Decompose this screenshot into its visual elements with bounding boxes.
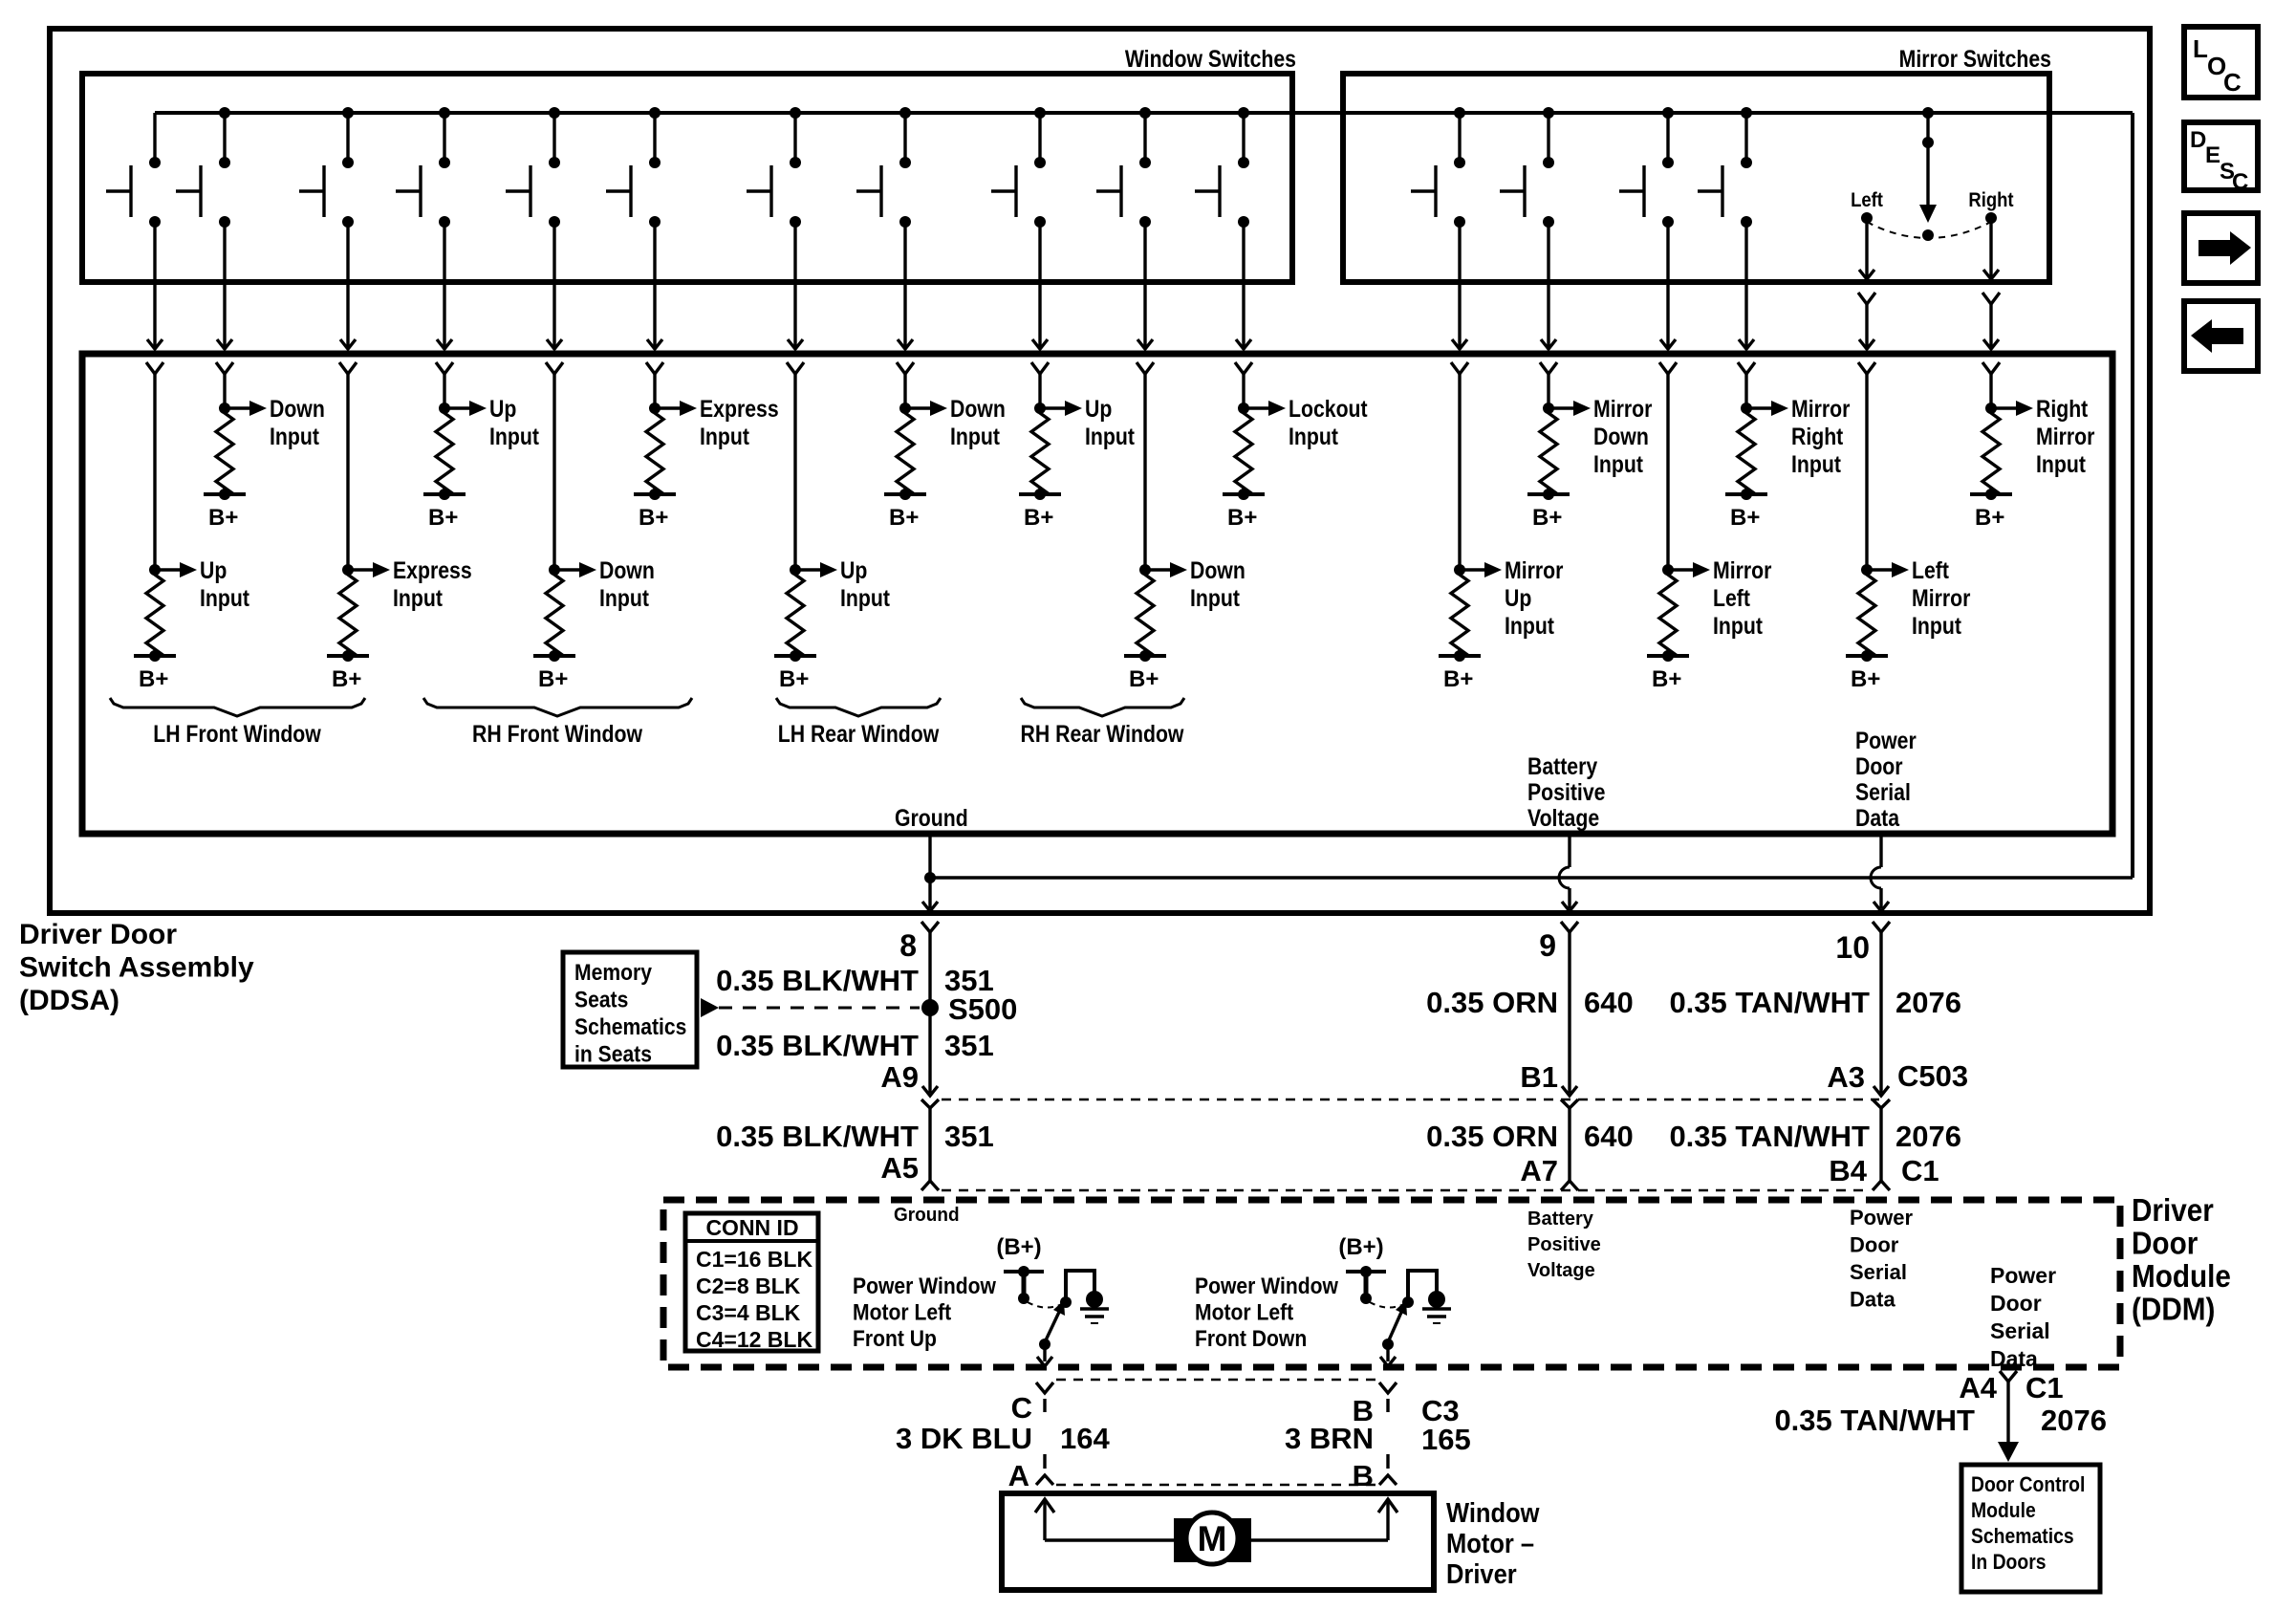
node: junction at (162,596) <box>149 564 161 576</box>
switch SW10 (RH rear down) <box>1096 107 1151 228</box>
svg-text:Up: Up <box>200 556 227 583</box>
svg-text:0.35 ORN: 0.35 ORN <box>1426 1120 1558 1153</box>
svg-text:Up: Up <box>840 556 867 583</box>
svg-text:Lockout: Lockout <box>1289 395 1368 422</box>
svg-text:B+: B+ <box>779 666 809 692</box>
svg-text:B+: B+ <box>1443 666 1473 692</box>
wire: motor box right lead <box>1250 1499 1397 1540</box>
svg-text:B+: B+ <box>639 505 668 531</box>
svg-text:Voltage: Voltage <box>1527 804 1599 831</box>
svg-text:C503: C503 <box>1897 1059 1968 1093</box>
svg-text:Input: Input <box>950 423 1000 449</box>
relay contact: B+ feed bar <box>1346 1266 1386 1304</box>
group brace: LH Rear Window <box>776 698 941 747</box>
wire label: 3 DK BLU circuit 164 <box>896 1422 1110 1455</box>
svg-text:9: 9 <box>1539 928 1556 963</box>
svg-text:Door: Door <box>1850 1233 1899 1257</box>
svg-text:B+: B+ <box>1975 505 2004 531</box>
resistor R6 <box>1235 408 1252 494</box>
wire: switch SW9 output into resistor box <box>1031 222 1049 374</box>
svg-text:Window: Window <box>1446 1496 1540 1528</box>
svg-text:Down: Down <box>1190 556 1245 583</box>
B+ terminal below R7 <box>1527 489 1570 531</box>
signal arrow: Mirror Left Input <box>1668 556 1771 639</box>
switch SW3 (LH front express) <box>299 107 354 228</box>
svg-text:Door: Door <box>2132 1226 2198 1261</box>
svg-text:CONN ID: CONN ID <box>705 1215 798 1240</box>
relay contact: B+ feed bar <box>1004 1266 1044 1304</box>
svg-text:Input: Input <box>1912 612 1961 639</box>
B+ terminal below R13 <box>774 650 816 692</box>
wire label: 0.35 ORN circuit 640 (below C503) <box>1426 1120 1634 1153</box>
wire: ground from resistor box to pin 8 <box>928 834 931 908</box>
svg-text:Serial: Serial <box>1850 1260 1907 1284</box>
Mirror Switches box <box>1343 74 2049 282</box>
CONN ID table <box>685 1213 818 1352</box>
pin 8 exit (ground) <box>921 902 939 932</box>
svg-text:B+: B+ <box>538 666 568 692</box>
wire: column x=1953 to lower junction <box>1865 374 1868 570</box>
ground <box>1422 1309 1451 1323</box>
resistor R16 <box>1659 570 1677 656</box>
svg-text:Mirror: Mirror <box>1713 556 1771 583</box>
signal arrow: Down Input <box>905 395 1006 449</box>
svg-text:Door Control: Door Control <box>1971 1473 2085 1496</box>
svg-text:3 DK BLU: 3 DK BLU <box>896 1422 1032 1455</box>
svg-text:Memory: Memory <box>574 960 652 986</box>
Door Control Module Schematics In Doors reference box <box>1961 1465 2100 1592</box>
Memory Seats Schematics in Seats reference box <box>563 952 697 1067</box>
svg-text:Front Up: Front Up <box>853 1326 937 1352</box>
svg-text:Input: Input <box>700 423 749 449</box>
resistor R5 <box>1031 408 1049 494</box>
wire: selector dashed travel arc <box>1867 222 1991 238</box>
svg-text:A3: A3 <box>1827 1060 1865 1094</box>
wire: switch SW10 output into resistor box <box>1137 222 1154 374</box>
svg-text:Power Window: Power Window <box>853 1274 996 1299</box>
resistor R2 <box>436 408 453 494</box>
wire: Left mirror select output <box>1858 218 1875 374</box>
svg-text:0.35 TAN/WHT: 0.35 TAN/WHT <box>1669 986 1870 1019</box>
wire: column x=832 to lower junction <box>793 374 796 570</box>
relay contacts bracket with ground contact <box>1402 1271 1445 1308</box>
svg-text:Up: Up <box>1085 395 1112 422</box>
wire: column x=2083 to upper junction <box>1989 374 1992 408</box>
svg-text:B+: B+ <box>1652 666 1681 692</box>
wire: ground collector to pin 8 <box>930 876 2133 879</box>
signal arrow: Left Mirror Input <box>1867 556 1970 639</box>
resistor R15 <box>1451 570 1468 656</box>
signal arrow: Down Input <box>1145 556 1245 611</box>
wire: motor box left lead <box>1035 1499 1174 1540</box>
svg-text:Motor Left: Motor Left <box>1195 1299 1294 1325</box>
svg-text:Data: Data <box>1850 1288 1895 1312</box>
switch SW14 (mirror left) <box>1619 107 1674 228</box>
wire label: 0.35 TAN/WHT circuit 2076 (above C503) <box>1669 986 1961 1019</box>
resistor R9 <box>1982 408 2000 494</box>
svg-text:B+: B+ <box>1129 666 1159 692</box>
resistor R11 <box>339 570 357 656</box>
svg-text:2076: 2076 <box>2041 1404 2107 1437</box>
resistor R14 <box>1137 570 1154 656</box>
wire: column x=1745 to lower junction <box>1666 374 1669 570</box>
svg-text:Mirror: Mirror <box>2036 423 2094 449</box>
svg-text:LH Rear Window: LH Rear Window <box>778 720 940 747</box>
resistor R7 <box>1540 408 1557 494</box>
svg-text:3 BRN: 3 BRN <box>1285 1422 1374 1455</box>
B+ terminal below R5 <box>1019 489 1061 531</box>
motor M1 (window motor) <box>1174 1513 1251 1564</box>
wire: S500 to connector C503 terminal A9 <box>922 1008 938 1096</box>
svg-text:In Doors: In Doors <box>1971 1551 2047 1574</box>
resistor R8 <box>1738 408 1755 494</box>
relay contacts bracket with ground contact <box>1060 1271 1103 1308</box>
svg-text:B+: B+ <box>1730 505 1760 531</box>
wire label: 0.35 TAN/WHT circuit 2076 (below C503) <box>1669 1120 1961 1153</box>
splice S500 <box>921 992 1017 1026</box>
svg-text:C: C <box>2232 169 2248 195</box>
svg-text:Power: Power <box>1990 1263 2056 1288</box>
signal arrow: Up Input <box>795 556 890 611</box>
relay armature arrow <box>1382 1300 1407 1350</box>
svg-text:8: 8 <box>899 928 917 963</box>
svg-text:Input: Input <box>1190 584 1240 611</box>
wire: C503 A9/A5 pass-through (ground) <box>921 1099 939 1190</box>
svg-text:Window Switches: Window Switches <box>1125 45 1296 72</box>
wire: pin 8 to S500 <box>928 932 931 1008</box>
legend box DESC <box>2184 122 2258 195</box>
svg-text:Module: Module <box>2132 1259 2231 1295</box>
signal arrow: Up Input <box>1040 395 1135 449</box>
connector C503 dashed body (bottom) <box>942 1189 1870 1192</box>
svg-text:Battery: Battery <box>1527 752 1597 779</box>
switch SW2 (LH front down) <box>176 107 230 228</box>
wire: column x=465 to upper junction <box>443 374 445 408</box>
svg-text:B+: B+ <box>889 505 919 531</box>
svg-text:Down: Down <box>599 556 655 583</box>
svg-text:L: L <box>2193 34 2208 63</box>
Window Motor - Driver box <box>1002 1493 1434 1590</box>
Driver Door Switch Assembly (DDSA) outer box <box>50 29 2150 913</box>
B+ terminal below R8 <box>1725 489 1767 531</box>
node: junction at (1827,427) <box>1741 403 1752 414</box>
node: junction at (1527,596) <box>1454 564 1465 576</box>
svg-text:LH Front Window: LH Front Window <box>153 720 321 747</box>
connector C503 dashed body (top) <box>942 1099 1879 1101</box>
svg-text:C2=8 BLK: C2=8 BLK <box>696 1274 801 1298</box>
wire: column x=1620 to upper junction <box>1547 374 1549 408</box>
svg-text:Positive: Positive <box>1527 778 1606 805</box>
switch SW1 (LH front up) <box>106 113 161 228</box>
motor connector dashed body (top) <box>1056 1379 1376 1382</box>
node: Left contact <box>1861 212 1873 224</box>
svg-text:Door: Door <box>1990 1291 2042 1316</box>
wire label: 0.35 BLK/WHT circuit 351 (below S500) <box>716 1029 994 1062</box>
svg-text:B+: B+ <box>1851 666 1880 692</box>
node: junction at (832,596) <box>790 564 801 576</box>
node: junction at (685,427) <box>649 403 661 414</box>
signal arrow: Express Input <box>655 395 779 449</box>
svg-text:B1: B1 <box>1520 1060 1558 1094</box>
wire: motor feed B/B (down) through connector <box>1379 1382 1397 1485</box>
wire: column x=1198 to lower junction <box>1143 374 1146 570</box>
svg-text:Ground: Ground <box>895 804 968 831</box>
wire: DDM pin A4 serial data out <box>1998 1371 2019 1462</box>
svg-text:Data: Data <box>1990 1346 2038 1371</box>
svg-text:0.35 ORN: 0.35 ORN <box>1426 986 1558 1019</box>
svg-text:640: 640 <box>1584 986 1634 1019</box>
svg-text:351: 351 <box>944 1029 994 1062</box>
wire: column x=1301 to upper junction <box>1242 374 1245 408</box>
svg-text:B+: B+ <box>1227 505 1257 531</box>
group brace: RH Front Window <box>423 698 692 747</box>
B+ terminal below R10 <box>134 650 176 692</box>
signal arrow: Up Input <box>155 556 249 611</box>
wire: switch SW13 output into resistor box <box>1540 222 1557 374</box>
svg-text:Serial: Serial <box>1855 778 1911 805</box>
svg-text:B+: B+ <box>332 666 361 692</box>
wire: switch SW11 output into resistor box <box>1235 222 1252 374</box>
B+ terminal below R9 <box>1970 489 2012 531</box>
resistor R10 <box>146 570 163 656</box>
svg-text:(DDM): (DDM) <box>2132 1292 2215 1327</box>
wire: motor feed C/A (up) through connector <box>1036 1382 1053 1485</box>
svg-text:D: D <box>2190 127 2206 153</box>
signal arrow: Down Input <box>225 395 325 449</box>
svg-text:0.35 BLK/WHT: 0.35 BLK/WHT <box>716 964 919 997</box>
svg-text:0.35 BLK/WHT: 0.35 BLK/WHT <box>716 1029 919 1062</box>
svg-text:164: 164 <box>1060 1422 1110 1455</box>
B+ terminal below R6 <box>1223 489 1265 531</box>
svg-text:Driver: Driver <box>2132 1193 2214 1229</box>
svg-text:(B+): (B+) <box>996 1234 1041 1260</box>
B+ terminal below R2 <box>423 489 466 531</box>
svg-text:(DDSA): (DDSA) <box>19 985 119 1016</box>
resistor R1 <box>216 408 233 494</box>
svg-text:Left: Left <box>1912 556 1949 583</box>
wire: common ground bus across switch boxes <box>155 111 2133 115</box>
svg-text:Up: Up <box>1505 584 1531 611</box>
switch SW4 (RH front up) <box>396 107 450 228</box>
svg-text:Input: Input <box>599 584 649 611</box>
node: Right contact <box>1985 212 1997 224</box>
switch input resistor box (DDSA internals) <box>82 354 2112 834</box>
svg-text:Data: Data <box>1855 804 1900 831</box>
wire label: 0.35 ORN circuit 640 (above C503) <box>1426 986 1634 1019</box>
svg-text:Power: Power <box>1855 727 1917 753</box>
node: junction at (465,427) <box>439 403 450 414</box>
wire: C503 B1/A7 pass-through (battery) <box>1561 1099 1578 1190</box>
switch SW6 (RH front express) <box>606 107 661 228</box>
svg-text:Down: Down <box>950 395 1006 422</box>
B+ terminal below R11 <box>327 650 369 692</box>
Window Switches box <box>82 74 1292 282</box>
svg-text:RH Rear Window: RH Rear Window <box>1021 720 1185 747</box>
svg-text:Mirror: Mirror <box>1593 395 1652 422</box>
svg-text:Right: Right <box>1791 423 1844 449</box>
B+ terminal below R17 <box>1846 650 1888 692</box>
svg-text:Schematics: Schematics <box>1971 1525 2074 1548</box>
switch SW7 (LH rear up) <box>747 107 801 228</box>
legend box back arrow <box>2184 301 2258 371</box>
svg-text:C1=16 BLK: C1=16 BLK <box>696 1247 812 1272</box>
svg-text:Right: Right <box>2036 395 2089 422</box>
wire: column x=1827 to upper junction <box>1744 374 1747 408</box>
svg-text:351: 351 <box>944 1120 994 1153</box>
svg-text:Up: Up <box>489 395 516 422</box>
svg-text:Down: Down <box>1593 423 1649 449</box>
svg-text:Driver Door: Driver Door <box>19 919 177 950</box>
svg-text:A9: A9 <box>880 1060 919 1094</box>
svg-text:Schematics: Schematics <box>574 1014 686 1040</box>
signal arrow: Mirror Down Input <box>1549 395 1652 477</box>
B+ terminal below R12 <box>533 650 575 692</box>
svg-text:Express: Express <box>393 556 472 583</box>
svg-text:(B+): (B+) <box>1338 1234 1383 1260</box>
switch SW12 (mirror up) <box>1411 107 1465 228</box>
resistor R17 <box>1858 570 1875 656</box>
switch SW8 (LH rear down) <box>856 107 911 228</box>
wire: switch SW1 output into resistor box <box>146 222 163 374</box>
signal arrow: Down Input <box>554 556 655 611</box>
wire: column x=1088 to upper junction <box>1038 374 1041 408</box>
wire: switch SW12 output into resistor box <box>1451 222 1468 374</box>
resistor R13 <box>787 570 804 656</box>
svg-text:Left: Left <box>1851 189 1883 211</box>
svg-text:Motor Left: Motor Left <box>853 1299 952 1325</box>
svg-text:Down: Down <box>270 395 325 422</box>
signal arrow: Up Input <box>444 395 539 449</box>
svg-text:Door: Door <box>1855 752 1903 779</box>
wire: column x=1527 to lower junction <box>1458 374 1461 570</box>
wire: serial data from box to pin 10 (with hop over ground wire) <box>1871 834 1890 932</box>
svg-text:S500: S500 <box>948 992 1017 1026</box>
svg-text:0.35 BLK/WHT: 0.35 BLK/WHT <box>716 1120 919 1153</box>
node: junction at (1620,427) <box>1543 403 1554 414</box>
svg-text:Input: Input <box>1289 423 1338 449</box>
svg-text:B4: B4 <box>1829 1154 1867 1187</box>
wire: column x=364 to lower junction <box>346 374 349 570</box>
svg-text:Mirror Switches: Mirror Switches <box>1899 45 2051 72</box>
node: junction at (1953,596) <box>1861 564 1873 576</box>
svg-text:Input: Input <box>1713 612 1763 639</box>
svg-text:M: M <box>1198 1519 1227 1558</box>
svg-text:2076: 2076 <box>1895 986 1961 1019</box>
svg-text:Motor –: Motor – <box>1446 1527 1534 1558</box>
svg-text:Serial: Serial <box>1990 1318 2050 1343</box>
svg-text:0.35 TAN/WHT: 0.35 TAN/WHT <box>1669 1120 1870 1153</box>
svg-text:Input: Input <box>840 584 890 611</box>
svg-text:Power: Power <box>1850 1206 1913 1230</box>
resistor R4 <box>897 408 914 494</box>
wire label: 0.35 BLK/WHT circuit 351 (below C503) <box>716 1120 994 1153</box>
svg-text:Input: Input <box>1505 612 1554 639</box>
wire: switch SW14 output into resistor box <box>1659 222 1677 374</box>
relay armature arrow <box>1039 1300 1065 1350</box>
svg-text:Switch Assembly: Switch Assembly <box>19 952 254 984</box>
B+ terminal below R15 <box>1439 650 1481 692</box>
svg-text:A5: A5 <box>880 1151 919 1185</box>
svg-text:Input: Input <box>270 423 319 449</box>
wire: switch SW2 output into resistor box <box>216 222 233 374</box>
B+ terminal below R14 <box>1124 650 1166 692</box>
svg-text:in Seats: in Seats <box>574 1041 652 1067</box>
svg-text:B+: B+ <box>208 505 238 531</box>
svg-text:C3=4 BLK: C3=4 BLK <box>696 1300 801 1325</box>
node: junction at (1301,427) <box>1238 403 1249 414</box>
svg-text:Ground: Ground <box>894 1205 960 1227</box>
relay contact travel arc <box>1028 1302 1062 1308</box>
node: junction at (580,596) <box>549 564 560 576</box>
svg-text:Positive: Positive <box>1527 1234 1601 1255</box>
wire: C503 A3/B4 pass-through (serial) <box>1873 1099 1890 1190</box>
relay contact travel arc <box>1370 1302 1404 1308</box>
wire: column x=235 to upper junction <box>223 374 226 408</box>
wire: bus right-side drop to ground net <box>2131 113 2134 878</box>
wire: switch SW4 output into resistor box <box>436 222 453 374</box>
Driver Door Module (DDM) dashed box <box>663 1200 2120 1367</box>
svg-text:Input: Input <box>2036 450 2086 477</box>
wire: switch SW7 output into resistor box <box>787 222 804 374</box>
svg-text:C1: C1 <box>1901 1154 1939 1187</box>
wire: pin 9 to C503 terminal B1 (battery positive) <box>1562 932 1577 1096</box>
svg-text:165: 165 <box>1421 1423 1471 1456</box>
svg-text:640: 640 <box>1584 1120 1634 1153</box>
B+ terminal below R3 <box>634 489 676 531</box>
wire label: 3 BRN circuit 165 <box>1285 1422 1471 1456</box>
svg-text:Mirror: Mirror <box>1912 584 1970 611</box>
node: junction at (1088,427) <box>1034 403 1046 414</box>
node: ground junction at bus drop <box>924 872 936 883</box>
svg-text:Driver: Driver <box>1446 1557 1517 1589</box>
resistor R3 <box>646 408 663 494</box>
svg-text:Input: Input <box>1791 450 1841 477</box>
wire: relay output through DDM connector <box>1037 1344 1052 1366</box>
node: junction at (235,427) <box>219 403 230 414</box>
svg-text:Mirror: Mirror <box>1791 395 1850 422</box>
wire: battery positive from box to pin 9 (with hop over ground wire) <box>1559 834 1578 932</box>
group brace: RH Rear Window <box>1021 698 1185 747</box>
svg-text:Input: Input <box>489 423 539 449</box>
svg-text:Express: Express <box>700 395 779 422</box>
svg-text:2076: 2076 <box>1895 1120 1961 1153</box>
signal arrow: Mirror Up Input <box>1460 556 1563 639</box>
svg-text:C: C <box>2223 68 2242 97</box>
node: junction at (2083,427) <box>1985 403 1997 414</box>
svg-text:C4=12 BLK: C4=12 BLK <box>696 1327 812 1352</box>
mirror selector common feed with arrow <box>1919 107 1937 241</box>
wire: relay output through DDM connector <box>1380 1344 1396 1366</box>
svg-text:B+: B+ <box>428 505 458 531</box>
ground <box>1080 1309 1109 1323</box>
node: junction at (364,596) <box>342 564 354 576</box>
legend box forward arrow <box>2184 213 2258 283</box>
svg-text:Input: Input <box>393 584 443 611</box>
svg-text:C1: C1 <box>2025 1371 2064 1404</box>
svg-text:Input: Input <box>1593 450 1643 477</box>
svg-text:Seats: Seats <box>574 987 628 1012</box>
group brace: LH Front Window <box>110 698 365 747</box>
wire: switch SW6 output into resistor box <box>646 222 663 374</box>
wire: switch SW3 output into resistor box <box>339 222 357 374</box>
wire: switch SW5 output into resistor box <box>546 222 563 374</box>
signal arrow: Right Mirror Input <box>1991 395 2094 477</box>
node: junction at (1745,596) <box>1662 564 1674 576</box>
resistor R12 <box>546 570 563 656</box>
wire: dashed branch to memory seats schematic <box>701 998 920 1017</box>
svg-text:Input: Input <box>200 584 249 611</box>
switch SW13 (mirror down) <box>1500 107 1554 228</box>
